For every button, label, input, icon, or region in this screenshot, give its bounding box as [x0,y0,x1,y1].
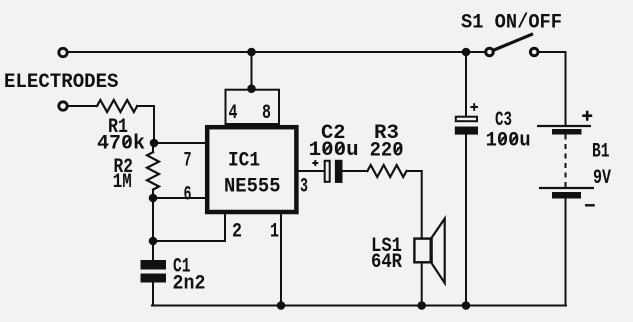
svg-text:3: 3 [300,176,308,199]
svg-text:100u: 100u [486,129,531,152]
svg-text:ELECTRODES: ELECTRODES [4,71,119,94]
svg-text:1M: 1M [113,171,132,194]
svg-text:4: 4 [229,102,238,125]
svg-text:S1 ON/OFF: S1 ON/OFF [461,12,562,35]
svg-text:2: 2 [232,221,242,244]
svg-text:2n2: 2n2 [173,273,206,296]
svg-text:IC1: IC1 [228,150,260,173]
svg-text:7: 7 [184,150,192,173]
svg-text:100u: 100u [309,139,359,162]
svg-text:1: 1 [270,221,279,244]
svg-text:470k: 470k [97,133,145,156]
svg-text:8: 8 [262,102,271,125]
svg-text:B1: B1 [592,141,610,164]
svg-text:64R: 64R [371,251,402,274]
svg-text:NE555: NE555 [224,176,281,199]
svg-text:6: 6 [184,184,192,207]
svg-text:220: 220 [370,140,404,163]
svg-text:9V: 9V [593,167,611,190]
